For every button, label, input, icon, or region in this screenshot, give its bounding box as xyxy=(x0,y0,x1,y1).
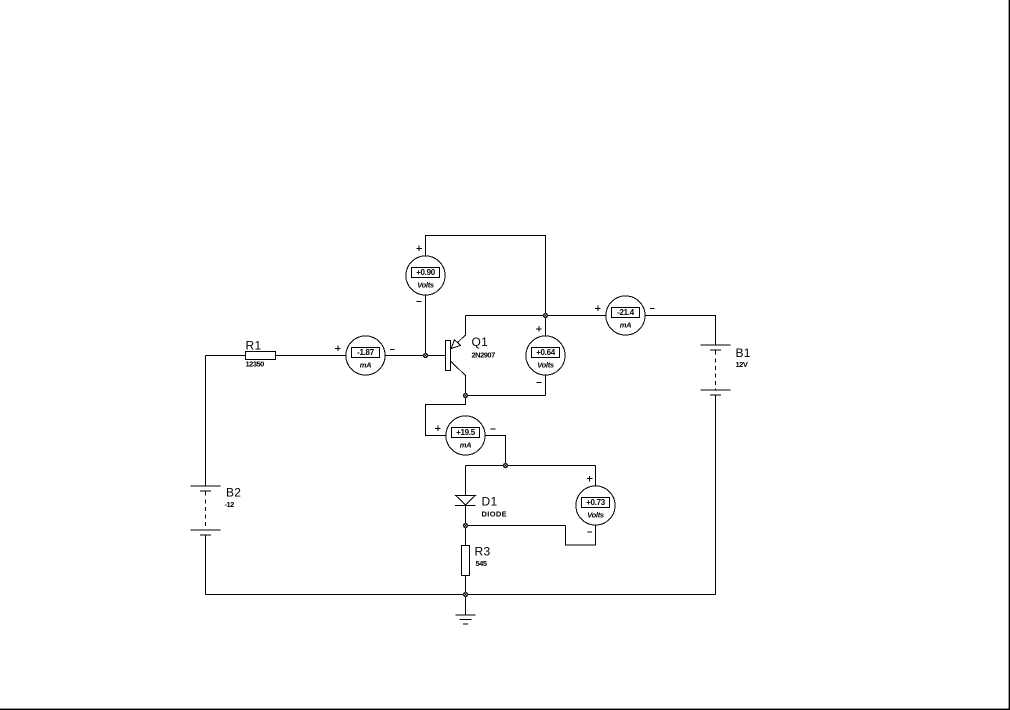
junction node A top right xyxy=(543,313,547,317)
wire: diode D1 anode stub xyxy=(465,466,467,496)
svg-text:Volts: Volts xyxy=(537,361,554,370)
wire: B2 bottom to bottom rail xyxy=(205,536,207,595)
voltmeter M6 plus xyxy=(587,476,592,481)
resistor R3 xyxy=(462,546,470,576)
svg-text:-12: -12 xyxy=(225,500,235,509)
svg-text:Volts: Volts xyxy=(587,511,604,520)
wire: bottom rail xyxy=(206,594,716,596)
svg-text:2N2907: 2N2907 xyxy=(472,351,496,360)
wire: emitter-top horizontal to node A xyxy=(466,315,546,317)
svg-text:12V: 12V xyxy=(736,360,748,369)
wire: node A down to voltmeter M3 plus xyxy=(545,316,547,336)
svg-text:12350: 12350 xyxy=(246,360,265,369)
svg-text:-1.87: -1.87 xyxy=(357,348,375,357)
wire: zigzag under voltmeter M6 xyxy=(566,525,596,545)
wire: R3 top stub xyxy=(465,526,467,546)
voltmeter M2 minus xyxy=(417,300,422,302)
svg-text:545: 545 xyxy=(476,559,487,568)
ammeter M1 xyxy=(346,336,385,375)
svg-text:B1: B1 xyxy=(736,346,751,360)
ground xyxy=(456,595,476,625)
svg-text:Q1: Q1 xyxy=(472,335,489,349)
ammeter M5 plus xyxy=(435,426,440,431)
wire: voltmeter M6 plus stub xyxy=(595,466,597,486)
svg-text:DIODE: DIODE xyxy=(482,510,508,519)
voltmeter M2 plus xyxy=(416,246,421,251)
wire: left rail vertical from R1 row down to B2 top xyxy=(205,356,207,487)
wire: ammeter M5 minus lead jog down to mid rail xyxy=(485,436,505,466)
voltmeter M6 xyxy=(576,486,615,525)
wire: R3 bottom to bottom rail xyxy=(465,576,467,595)
wire: right rail from B1 bottom to bottom rail xyxy=(715,396,717,595)
wire: mid rail horizontal xyxy=(466,465,596,467)
svg-text:R3: R3 xyxy=(475,545,491,559)
voltmeter M3 minus xyxy=(537,382,542,384)
wire: base row from left rail to R1 xyxy=(206,355,246,357)
svg-text:+19.5: +19.5 xyxy=(456,428,476,437)
diode D1 xyxy=(455,496,476,506)
ammeter M4 minus xyxy=(650,308,655,310)
ammeter M4 plus xyxy=(595,306,600,311)
resistor R1 xyxy=(246,352,276,360)
junction node at Q1 collector xyxy=(463,393,467,397)
svg-text:B2: B2 xyxy=(226,486,241,500)
wire: diode D1 cathode stub xyxy=(465,505,467,525)
svg-text:-21.4: -21.4 xyxy=(617,308,635,317)
wire: R1 to ammeter M1 xyxy=(276,355,346,357)
svg-text:R1: R1 xyxy=(246,339,262,353)
wire: under-diode horizontal to zigzag xyxy=(466,525,566,527)
wire: B1 top to meter row corner xyxy=(645,316,715,346)
svg-text:+0.73: +0.73 xyxy=(586,498,606,507)
voltmeter M6 minus xyxy=(587,531,592,533)
svg-text:mA: mA xyxy=(460,441,472,450)
wire: voltmeter M2 minus lead down to base node xyxy=(425,295,427,355)
svg-text:+0.64: +0.64 xyxy=(536,348,556,357)
voltmeter M2 xyxy=(406,256,445,295)
ammeter M1 plus xyxy=(335,346,340,351)
battery B1 xyxy=(701,345,731,395)
ammeter M5 xyxy=(446,416,485,455)
junction node on mid rail xyxy=(503,463,507,467)
wire: top loop from voltmeter M2 plus terminal over to node A xyxy=(426,236,546,316)
wire: collector row horizontal xyxy=(466,395,546,397)
voltmeter M3 xyxy=(526,336,565,375)
junction node at Q1 base xyxy=(423,353,427,357)
battery B2 xyxy=(191,486,221,535)
wire: voltmeter M3 minus down to collector row xyxy=(545,375,547,395)
junction node below diode xyxy=(463,523,467,527)
ammeter M1 minus xyxy=(390,348,395,350)
ammeter M4 xyxy=(606,296,645,335)
svg-text:+0.90: +0.90 xyxy=(416,268,436,277)
svg-text:mA: mA xyxy=(620,321,632,330)
wire: jog from collector node to ammeter M5 plus lead xyxy=(426,396,466,436)
ammeter M5 minus xyxy=(491,428,496,430)
wire: ammeter M1 to Q1 base xyxy=(385,355,445,357)
wire: ammeter M4 left lead to node A xyxy=(546,315,606,317)
svg-text:mA: mA xyxy=(360,361,372,370)
voltmeter M3 plus xyxy=(536,326,541,331)
svg-text:Volts: Volts xyxy=(417,281,434,290)
transistor Q1 xyxy=(446,316,466,396)
svg-text:D1: D1 xyxy=(482,495,498,509)
junction node at ground xyxy=(463,592,467,596)
